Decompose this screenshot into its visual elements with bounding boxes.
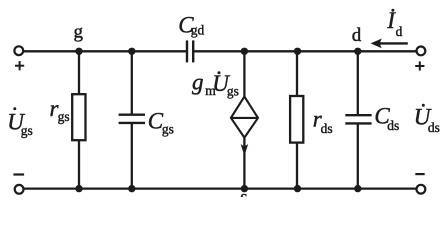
- wire top rail left segment: [23, 50, 186, 52]
- wire Cds branch lower: [357, 123, 359, 188]
- plus sign top left: [15, 61, 24, 70]
- wire source branch upper: [243, 51, 245, 97]
- wire Cds branch upper: [357, 51, 359, 115]
- wire rds branch upper: [296, 51, 298, 97]
- wire source branch lower with arrow: [243, 138, 245, 189]
- label C_gd: [178, 13, 204, 38]
- wire gate branch lower: [78, 140, 80, 188]
- node dot s bottom: [241, 185, 248, 192]
- node dot Cgs bottom: [128, 185, 135, 192]
- capacitor C_gd (series in top rail): [187, 40, 193, 62]
- resistor r_ds: [290, 96, 303, 143]
- svg-text:gs: gs: [21, 123, 33, 138]
- svg-text:d: d: [352, 25, 362, 46]
- node dot Cds bottom: [354, 185, 361, 192]
- svg-text:gd: gd: [191, 23, 205, 38]
- capacitor C_ds: [345, 115, 371, 123]
- node dot rds top: [294, 48, 301, 55]
- svg-text:ds: ds: [387, 118, 399, 133]
- label r_gs: [50, 96, 70, 124]
- minus sign bottom right: [415, 173, 424, 175]
- terminal + (top left): [14, 46, 23, 55]
- wire gate branch upper: [78, 51, 80, 95]
- capacitor C_gs: [119, 115, 145, 123]
- terminal - (bottom left): [15, 185, 24, 194]
- terminal - (bottom right): [417, 185, 426, 194]
- svg-text:ds: ds: [428, 120, 440, 135]
- label C_gs: [148, 108, 174, 136]
- arrow for current I_d: [371, 39, 408, 49]
- svg-text:gs: gs: [162, 122, 174, 137]
- node dot after Cgd top: [241, 48, 248, 55]
- node dot g top: [75, 48, 82, 55]
- wire Cgs branch lower: [131, 123, 133, 189]
- arrowhead downward on source branch: [241, 144, 249, 156]
- wire top rail right segment: [194, 50, 417, 52]
- svg-text:ds: ds: [321, 121, 333, 136]
- node dot g bottom: [75, 185, 82, 192]
- resistor r_gs: [72, 94, 85, 140]
- svg-text:gs: gs: [58, 109, 70, 124]
- svg-text:g: g: [192, 70, 204, 95]
- label U_gs with dot (left): [7, 107, 33, 138]
- label C_ds: [374, 104, 399, 133]
- plus sign top right: [415, 61, 424, 70]
- svg-text:g: g: [74, 22, 84, 43]
- minus sign bottom left: [13, 173, 24, 175]
- svg-text:d: d: [396, 24, 403, 39]
- wire bottom rail: [23, 187, 416, 189]
- label U_ds with dot (right): [414, 104, 440, 135]
- current source g_m U_gs (diamond): [231, 97, 258, 138]
- label g_m U_gs (controlled source): [192, 70, 239, 99]
- svg-text:s: s: [240, 187, 247, 197]
- wire Cgs branch upper: [131, 51, 133, 115]
- wire rds branch lower: [296, 143, 298, 189]
- label I_d with dot: [386, 8, 402, 39]
- node dot d top: [354, 48, 361, 55]
- label r_ds: [313, 106, 333, 136]
- node dot rds bottom: [294, 185, 301, 192]
- terminal + (top right): [417, 47, 426, 56]
- node dot Cgs top: [128, 48, 135, 55]
- svg-text:gs: gs: [227, 84, 239, 99]
